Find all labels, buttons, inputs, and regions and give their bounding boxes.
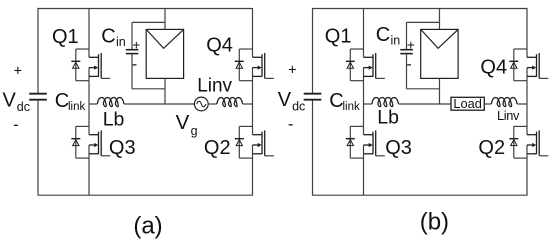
Q3b gate lead bbox=[376, 155, 385, 157]
Q3a body diode bbox=[71, 138, 80, 140]
svg-text:Lb: Lb bbox=[377, 107, 399, 129]
Q3a source contact bbox=[89, 153, 99, 155]
wire: PV branch bottom drop (a) bbox=[164, 78, 166, 104]
Q3a body-diode branch wire bbox=[75, 126, 77, 158]
Q4a gate lead bbox=[265, 77, 274, 79]
Q2a body contact with arrow bbox=[253, 144, 259, 146]
Q1b top jog wire bbox=[350, 48, 363, 50]
wire: inner branch lower (a) bbox=[88, 145, 90, 195]
wire: Cin bottom link (b) bbox=[407, 88, 440, 90]
wire: inner branch upper (a) bbox=[88, 9, 90, 58]
Q1b body contact with arrow bbox=[364, 67, 370, 69]
svg-text:+: + bbox=[14, 63, 22, 79]
Q3b body diode bbox=[346, 138, 355, 140]
svg-text:-: - bbox=[406, 56, 411, 73]
transistor Q1 (b) bbox=[346, 49, 385, 81]
Q4b body contact with arrow bbox=[527, 67, 533, 69]
Q2b top jog wire bbox=[514, 125, 527, 127]
svg-text:V: V bbox=[3, 90, 17, 112]
capacitor Clink (a) bbox=[29, 93, 47, 95]
Q4a top jog wire bbox=[239, 48, 252, 50]
svg-text:Load: Load bbox=[453, 96, 481, 111]
wire: right rail lower (b) bbox=[526, 145, 528, 195]
svg-text:+: + bbox=[407, 37, 415, 52]
Q1a body-diode branch wire bbox=[75, 49, 77, 81]
svg-text:-: - bbox=[288, 115, 294, 133]
svg-text:Lb: Lb bbox=[103, 109, 125, 131]
wire: left rail upper (a) bbox=[37, 9, 39, 94]
svg-text:C: C bbox=[101, 25, 115, 47]
Q1b channel bar bbox=[372, 54, 374, 77]
wire: Cin branch lower (b) bbox=[406, 54, 408, 89]
Q3b drain contact bbox=[364, 134, 374, 136]
wire: Cin branch upper (b) bbox=[406, 22, 408, 49]
Q1a gate lead bbox=[101, 77, 110, 79]
Q1b gate bar bbox=[375, 53, 377, 78]
wire: inner branch middle (b) bbox=[363, 68, 365, 135]
capacitor Cin (b) bbox=[400, 49, 413, 51]
svg-text:g: g bbox=[191, 124, 198, 138]
Q2a top jog wire bbox=[239, 125, 252, 127]
wire: left rail lower (b) bbox=[312, 100, 314, 195]
wire: bottom rail (b) bbox=[312, 194, 528, 196]
wire: mid rail right segment (b) bbox=[517, 103, 527, 105]
Q2b body diode bbox=[509, 138, 518, 140]
wire: Cin top link (a) bbox=[132, 21, 165, 23]
Q4b source contact bbox=[527, 75, 537, 77]
PV panel (a) bbox=[146, 29, 183, 78]
Q1b gate lead bbox=[376, 77, 385, 79]
Q4b drain contact bbox=[527, 56, 537, 58]
wire: right rail upper (a) bbox=[252, 9, 254, 58]
Q2b gate bar bbox=[538, 130, 540, 155]
Q4a body diode bbox=[235, 60, 244, 62]
Q1a gate bar bbox=[100, 53, 102, 78]
svg-text:dc: dc bbox=[292, 100, 305, 114]
Q4b body diode bbox=[509, 60, 518, 62]
Q2a gate lead bbox=[265, 155, 274, 157]
Q4a channel bar bbox=[261, 54, 263, 77]
Q4a drain contact bbox=[253, 56, 263, 58]
wire: PV branch top drop (a) bbox=[164, 9, 166, 30]
transistor Q3 (b) bbox=[346, 126, 385, 158]
Q1b drain contact bbox=[364, 56, 374, 58]
wire: Cin bottom link (a) bbox=[132, 88, 165, 90]
wire: left rail lower (a) bbox=[37, 100, 39, 195]
Q1b source contact bbox=[364, 75, 374, 77]
transistor Q4 (b) bbox=[509, 49, 548, 81]
svg-text:Q2: Q2 bbox=[204, 137, 231, 159]
Q2b bottom jog wire bbox=[514, 157, 527, 159]
Q3a bottom jog wire bbox=[76, 157, 89, 159]
wire: PV branch top drop (b) bbox=[439, 9, 441, 30]
wire: mid rail right segment (a) bbox=[243, 103, 253, 105]
transistor Q2 (b) bbox=[509, 126, 548, 158]
Q1b body diode bbox=[346, 60, 355, 62]
svg-text:(a): (a) bbox=[133, 212, 162, 239]
wire: Cin branch upper (a) bbox=[131, 22, 133, 49]
Q2b channel bar bbox=[536, 132, 538, 155]
Q1a body diode bbox=[71, 60, 80, 62]
Q4a gate bar bbox=[264, 53, 266, 78]
Q1b bottom jog wire bbox=[350, 80, 363, 82]
wire: Cin branch lower (a) bbox=[131, 54, 133, 89]
inductor Linv (b) bbox=[491, 98, 517, 107]
Q2a body diode bbox=[235, 138, 244, 140]
Q4a body-diode branch wire bbox=[238, 49, 240, 81]
wire: left rail upper (b) bbox=[312, 9, 314, 94]
svg-text:+: + bbox=[132, 37, 140, 52]
Q1a channel bar bbox=[98, 54, 100, 77]
Q3a gate bar bbox=[100, 130, 102, 155]
svg-text:Q4: Q4 bbox=[480, 57, 507, 79]
svg-text:V: V bbox=[176, 111, 190, 134]
wire: mid rail center segment (a) bbox=[124, 103, 194, 105]
Q3a gate lead bbox=[101, 155, 110, 157]
Q3a body contact with arrow bbox=[89, 144, 95, 146]
AC source Vg (a) bbox=[194, 97, 208, 111]
svg-text:C: C bbox=[376, 24, 390, 46]
Q3b channel bar bbox=[372, 132, 374, 155]
Q1a bottom jog wire bbox=[76, 80, 89, 82]
svg-text:-: - bbox=[13, 116, 19, 134]
Q2a drain contact bbox=[253, 134, 263, 136]
Q2b body contact with arrow bbox=[527, 144, 533, 146]
svg-text:link: link bbox=[68, 101, 86, 113]
wire: right rail middle (a) bbox=[252, 68, 254, 135]
svg-text:in: in bbox=[391, 34, 401, 48]
Q3b body contact with arrow bbox=[364, 144, 370, 146]
Q3b source contact bbox=[364, 153, 374, 155]
wire: PV branch bottom drop (b) bbox=[439, 78, 441, 104]
inductor Lb (b) bbox=[372, 98, 399, 107]
Q1a source contact bbox=[89, 75, 99, 77]
Q4a bottom jog wire bbox=[239, 80, 252, 82]
wire: Cin top link (b) bbox=[407, 21, 440, 23]
Q4b body-diode branch wire bbox=[513, 49, 515, 81]
Q4b top jog wire bbox=[514, 48, 527, 50]
transistor Q4 (a) bbox=[235, 49, 274, 81]
load box (b) bbox=[451, 97, 484, 110]
Q1a body contact with arrow bbox=[89, 67, 95, 69]
Q4b bottom jog wire bbox=[514, 80, 527, 82]
svg-text:in: in bbox=[116, 35, 126, 49]
Q2b source contact bbox=[527, 153, 537, 155]
transistor Q3 (a) bbox=[71, 126, 110, 158]
Q1a top jog wire bbox=[76, 48, 89, 50]
wire: top rail (a) bbox=[38, 8, 254, 10]
Q3b gate bar bbox=[375, 130, 377, 155]
Q2b drain contact bbox=[527, 134, 537, 136]
svg-text:link: link bbox=[343, 101, 361, 113]
Q3a drain contact bbox=[89, 134, 99, 136]
Q3b top jog wire bbox=[350, 125, 363, 127]
inductor Linv (a) bbox=[217, 98, 243, 107]
Q2a source contact bbox=[253, 153, 263, 155]
svg-text:Linv: Linv bbox=[497, 108, 520, 123]
wire: right rail upper (b) bbox=[526, 9, 528, 58]
wire: bottom rail (a) bbox=[38, 194, 254, 196]
Q2a channel bar bbox=[261, 132, 263, 155]
Q3a top jog wire bbox=[76, 125, 89, 127]
transistor Q2 (a) bbox=[235, 126, 274, 158]
wire: inner branch upper (b) bbox=[363, 9, 365, 58]
svg-text:Q1: Q1 bbox=[325, 25, 352, 47]
wire: mid rail left segment (b) bbox=[364, 103, 372, 105]
Q3b bottom jog wire bbox=[350, 157, 363, 159]
Q1b body-diode branch wire bbox=[349, 49, 351, 81]
svg-text:Q1: Q1 bbox=[52, 26, 79, 48]
Q4b gate lead bbox=[539, 77, 548, 79]
Q3b body-diode branch wire bbox=[349, 126, 351, 158]
Q3a channel bar bbox=[98, 132, 100, 155]
Q4a body contact with arrow bbox=[253, 67, 259, 69]
Q4a source contact bbox=[253, 75, 263, 77]
wire: mid rail center segment (b) bbox=[399, 103, 452, 105]
Q1a drain contact bbox=[89, 56, 99, 58]
inductor Lb (a) bbox=[97, 98, 124, 107]
capacitor Cin (a) bbox=[126, 49, 139, 51]
svg-text:dc: dc bbox=[17, 100, 30, 114]
svg-text:Linv: Linv bbox=[197, 76, 232, 97]
wire: mid rail segment Load to Linv (b) bbox=[484, 103, 491, 105]
Q2a body-diode branch wire bbox=[238, 126, 240, 158]
wire: right rail middle (b) bbox=[526, 68, 528, 135]
Q2a gate bar bbox=[264, 130, 266, 155]
transistor Q1 (a) bbox=[71, 49, 110, 81]
wire: mid rail segment Vg to Linv (a) bbox=[208, 103, 217, 105]
Q2b gate lead bbox=[539, 155, 548, 157]
capacitor Clink (b) bbox=[304, 93, 322, 95]
svg-text:+: + bbox=[288, 62, 296, 78]
wire: top rail (b) bbox=[312, 8, 528, 10]
wire: mid rail left segment (a) bbox=[89, 103, 97, 105]
svg-text:Q3: Q3 bbox=[385, 137, 412, 159]
wire: inner branch lower (b) bbox=[363, 145, 365, 195]
svg-text:Q3: Q3 bbox=[109, 137, 136, 159]
wire: right rail lower (a) bbox=[252, 145, 254, 195]
Q2a bottom jog wire bbox=[239, 157, 252, 159]
svg-text:-: - bbox=[132, 56, 137, 73]
PV panel (b) bbox=[421, 29, 458, 78]
Q4b channel bar bbox=[536, 54, 538, 77]
svg-text:(b): (b) bbox=[420, 208, 449, 235]
wire: inner branch middle (a) bbox=[88, 68, 90, 135]
svg-text:V: V bbox=[278, 89, 292, 111]
Q4b gate bar bbox=[538, 53, 540, 78]
svg-text:Q4: Q4 bbox=[206, 35, 233, 57]
svg-text:Q2: Q2 bbox=[478, 137, 505, 159]
Q2b body-diode branch wire bbox=[513, 126, 515, 158]
